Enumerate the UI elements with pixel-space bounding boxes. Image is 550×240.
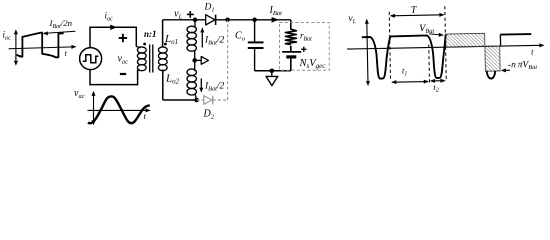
wire source top to transformer primary: [90, 27, 136, 47]
dimension arrow t2: [431, 80, 445, 82]
hatched block at negative level: [485, 46, 500, 71]
node junction Lo1 / top rail: [193, 18, 198, 23]
svg-text:iac: iac: [105, 11, 114, 23]
svg-text:Lo1: Lo1: [164, 33, 178, 46]
node junction Co / top rail: [252, 18, 257, 23]
polarity dot primary: [143, 43, 146, 46]
arrow pointer V_Bat to band: [429, 34, 441, 35]
svg-text:rBat: rBat: [300, 31, 312, 43]
wire bottom rail left: [163, 99, 197, 101]
arrow pointer -n pi V_Bat to negative level: [503, 69, 510, 71]
svg-text:-n πVBat: -n πVBat: [508, 60, 538, 72]
plot axis i_ac vertical (double arrow): [14, 29, 18, 66]
source v_ac square-wave glyph: [83, 55, 99, 63]
dashed marker t2 start: [428, 44, 431, 82]
waveform rising edge: [499, 34, 501, 45]
svg-text:vL: vL: [174, 9, 183, 21]
plot axis t horizontal (i_ac plot): [9, 45, 77, 49]
plot axis t horizontal (v_L plot): [347, 45, 541, 49]
svg-text:vL: vL: [348, 14, 356, 25]
hatched band at V_Bat level: [446, 33, 485, 47]
plot axis v_L vertical (double arrow): [367, 22, 368, 83]
svg-text:IBat/2: IBat/2: [204, 36, 225, 47]
svg-text:iac: iac: [3, 30, 12, 42]
wire secondary bottom lead: [162, 70, 164, 101]
svg-text:t: t: [531, 46, 534, 56]
svg-text:VBat: VBat: [419, 23, 435, 35]
node junction D2 return / top rail: [225, 18, 230, 23]
transformer T1 primary winding: [136, 47, 146, 71]
node junction Lo1-Lo2 midpoint: [192, 58, 197, 63]
waveform final plateau: [500, 33, 531, 36]
svg-text:n:1: n:1: [144, 29, 157, 39]
arrow i_ac current direction on wire: [110, 25, 117, 30]
inductor Lo1: [187, 20, 196, 61]
svg-text:t: t: [65, 48, 68, 58]
inductor Lo2: [187, 60, 197, 100]
label + (battery polarity): [301, 47, 306, 52]
dashed marker period end: [445, 6, 446, 81]
diode D1: [206, 15, 216, 25]
svg-text:D2: D2: [203, 109, 215, 121]
wire bottom rail right: [255, 70, 291, 72]
waveform notch below negative plateau: [487, 71, 496, 79]
svg-text:vac: vac: [74, 88, 85, 100]
svg-text:T: T: [411, 5, 418, 16]
waveform i_ac: [17, 33, 64, 58]
label + (v_ac polarity): [119, 34, 127, 42]
svg-text:IBat: IBat: [269, 5, 283, 17]
capacitor Co: [248, 20, 264, 71]
node junction Lo2 bottom: [194, 98, 199, 103]
waveform v_L plateaus and dips: [362, 34, 447, 79]
dimension arrow T: [391, 15, 443, 16]
plot axis v_ac vertical (double arrow): [92, 91, 96, 126]
waveform v_ac sine: [88, 96, 150, 123]
svg-text:vac: vac: [118, 54, 129, 66]
polarity dot secondary: [164, 43, 167, 46]
battery cell NsVgec: [282, 46, 301, 71]
label + (v_L polarity): [187, 11, 194, 18]
resistor rBat: [285, 29, 296, 44]
dashed box battery model: [280, 23, 330, 71]
svg-text:IBat/2n: IBat/2n: [49, 18, 73, 30]
svg-text:IBat/2: IBat/2: [204, 82, 225, 93]
svg-text:Co: Co: [235, 31, 246, 43]
dimension arrow t1: [392, 81, 427, 84]
wire battery branch from rail down: [290, 20, 292, 30]
diode D2 (grey, non-conducting) with dashed return wire: [197, 21, 228, 105]
transformer T1 core: [150, 45, 153, 73]
arrow I_Bat/2 up (Lo1 current): [200, 27, 204, 47]
arrow I_Bat current direction on rail: [272, 17, 279, 23]
transformer T1 secondary winding: [158, 47, 167, 71]
plot axis t horizontal (sine plot): [88, 108, 151, 112]
wire secondary top lead: [162, 20, 164, 47]
svg-text:t: t: [144, 111, 147, 121]
svg-text:t2: t2: [433, 82, 439, 94]
wire stub with open arrow at midpoint: [195, 57, 209, 65]
arrow pointer I_Bat/2n to waveform: [43, 31, 76, 35]
svg-text:NsVgec: NsVgec: [299, 58, 327, 70]
node junction ground: [270, 69, 275, 74]
svg-text:t1: t1: [402, 65, 408, 77]
dashed marker period start: [389, 12, 390, 81]
svg-text:Lo2: Lo2: [165, 73, 180, 86]
source v_ac circle: [80, 48, 102, 70]
wire top rail: [163, 19, 291, 21]
plot group v_L waveform (right): [346, 2, 545, 95]
arrow I_Bat/2 down (Lo2 current): [199, 79, 203, 93]
wire source bottom to transformer primary: [90, 70, 138, 85]
ground: [266, 71, 278, 86]
label - (v_ac polarity): [120, 73, 126, 75]
svg-text:D1: D1: [204, 3, 215, 14]
